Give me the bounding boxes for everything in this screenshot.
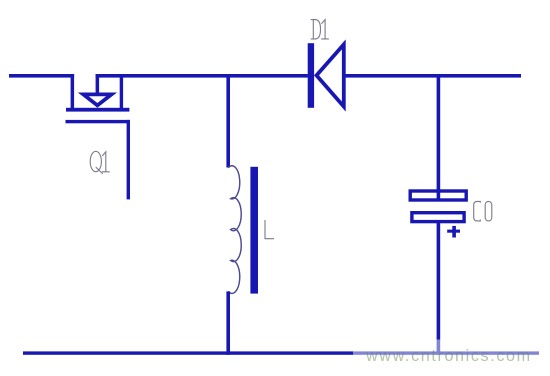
svg-text:www.cntronics.com: www.cntronics.com — [365, 347, 532, 365]
